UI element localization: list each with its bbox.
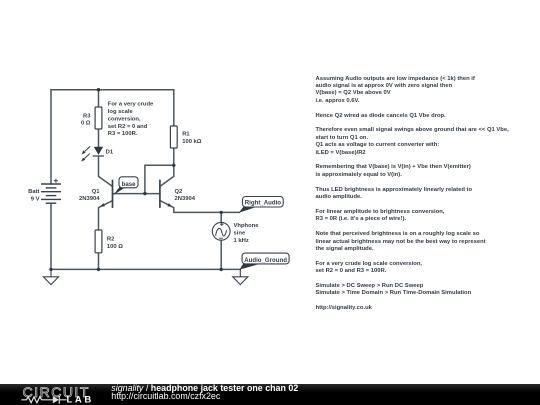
svg-text:log scale: log scale — [108, 109, 134, 115]
resistor R1 — [170, 126, 177, 148]
flag Right_Audio — [239, 197, 283, 213]
svg-text:100 Ω: 100 Ω — [107, 244, 123, 250]
wire base Q1 to Q2 — [113, 193, 160, 195]
annotation note on schematic — [108, 102, 154, 138]
label Q1 value — [79, 189, 100, 202]
transistor Q1 — [100, 180, 112, 208]
node collector junction — [172, 164, 175, 167]
wire battery top — [50, 90, 52, 184]
wire Q2 emitter to Right_Audio — [160, 201, 239, 213]
svg-text:Vhphone: Vhphone — [234, 223, 260, 229]
svg-text:LAB: LAB — [67, 395, 94, 405]
svg-text:D1: D1 — [106, 150, 114, 156]
voltage source Vhphone — [212, 222, 230, 240]
svg-text:1 kHz: 1 kHz — [234, 238, 249, 244]
svg-text:R3 = 100R.: R3 = 100R. — [108, 131, 138, 137]
svg-text:R3: R3 — [83, 113, 91, 119]
node base junction — [143, 192, 146, 195]
svg-text:conversion,: conversion, — [108, 116, 141, 122]
node ground R2 — [97, 268, 100, 271]
resistor R2 — [95, 230, 102, 253]
svg-text:sine: sine — [234, 231, 246, 237]
wire top rail — [51, 89, 174, 91]
CircuitLab logo — [21, 384, 94, 405]
wire R2 bottom — [98, 253, 100, 270]
svg-text:100 kΩ: 100 kΩ — [182, 139, 202, 145]
label R3 value — [81, 113, 91, 126]
wire battery bottom — [50, 203, 52, 269]
transistor Q2 — [160, 180, 172, 208]
wire Vhphone bottom — [220, 240, 222, 269]
svg-text:9 V: 9 V — [31, 196, 40, 202]
wire Vhphone top — [220, 212, 222, 222]
wire collector feedback to base — [145, 165, 174, 193]
wire Q1 emitter to R2 — [99, 201, 113, 230]
wire D1 to Q1 collector — [99, 156, 113, 186]
svg-text:Audio_Ground: Audio_Ground — [244, 257, 287, 264]
LED D1 — [81, 146, 104, 161]
label R2 value — [107, 237, 123, 250]
flag Audio_Ground — [240, 253, 290, 270]
ground right — [233, 269, 248, 284]
svg-text:Batt: Batt — [28, 189, 39, 195]
label R1 value — [182, 131, 202, 144]
svg-text:R2: R2 — [107, 237, 115, 243]
svg-text:base: base — [122, 181, 137, 188]
ground left — [43, 269, 58, 284]
label Q2 value — [175, 189, 196, 202]
node ground Vhphone — [220, 268, 223, 271]
label Batt value — [28, 189, 39, 202]
svg-text:0 Ω: 0 Ω — [81, 121, 91, 127]
label Vhphone value — [234, 223, 260, 244]
wire R3 to D1 — [98, 129, 100, 147]
svg-text:Q1: Q1 — [92, 189, 101, 195]
wire R3 top — [98, 90, 100, 107]
svg-text:set R2 = 0 and: set R2 = 0 and — [108, 124, 148, 130]
svg-text:2N3904: 2N3904 — [175, 196, 196, 202]
svg-text:2N3904: 2N3904 — [79, 196, 100, 202]
wire R1 top — [173, 90, 175, 126]
resistor R3 — [95, 107, 102, 129]
svg-text:R1: R1 — [182, 131, 190, 137]
svg-text:Q2: Q2 — [175, 189, 184, 195]
flag base — [113, 177, 138, 195]
node Right_Audio junction — [220, 211, 223, 214]
wire ground rail — [51, 268, 240, 270]
svg-text:Right_Audio: Right_Audio — [245, 200, 281, 207]
wire R1 bottom to Q2 collector — [160, 148, 174, 186]
svg-text:For a very crude: For a very crude — [108, 102, 154, 108]
node ground battery — [49, 268, 52, 271]
node top rail R3 — [97, 88, 100, 91]
battery Batt — [41, 179, 61, 204]
